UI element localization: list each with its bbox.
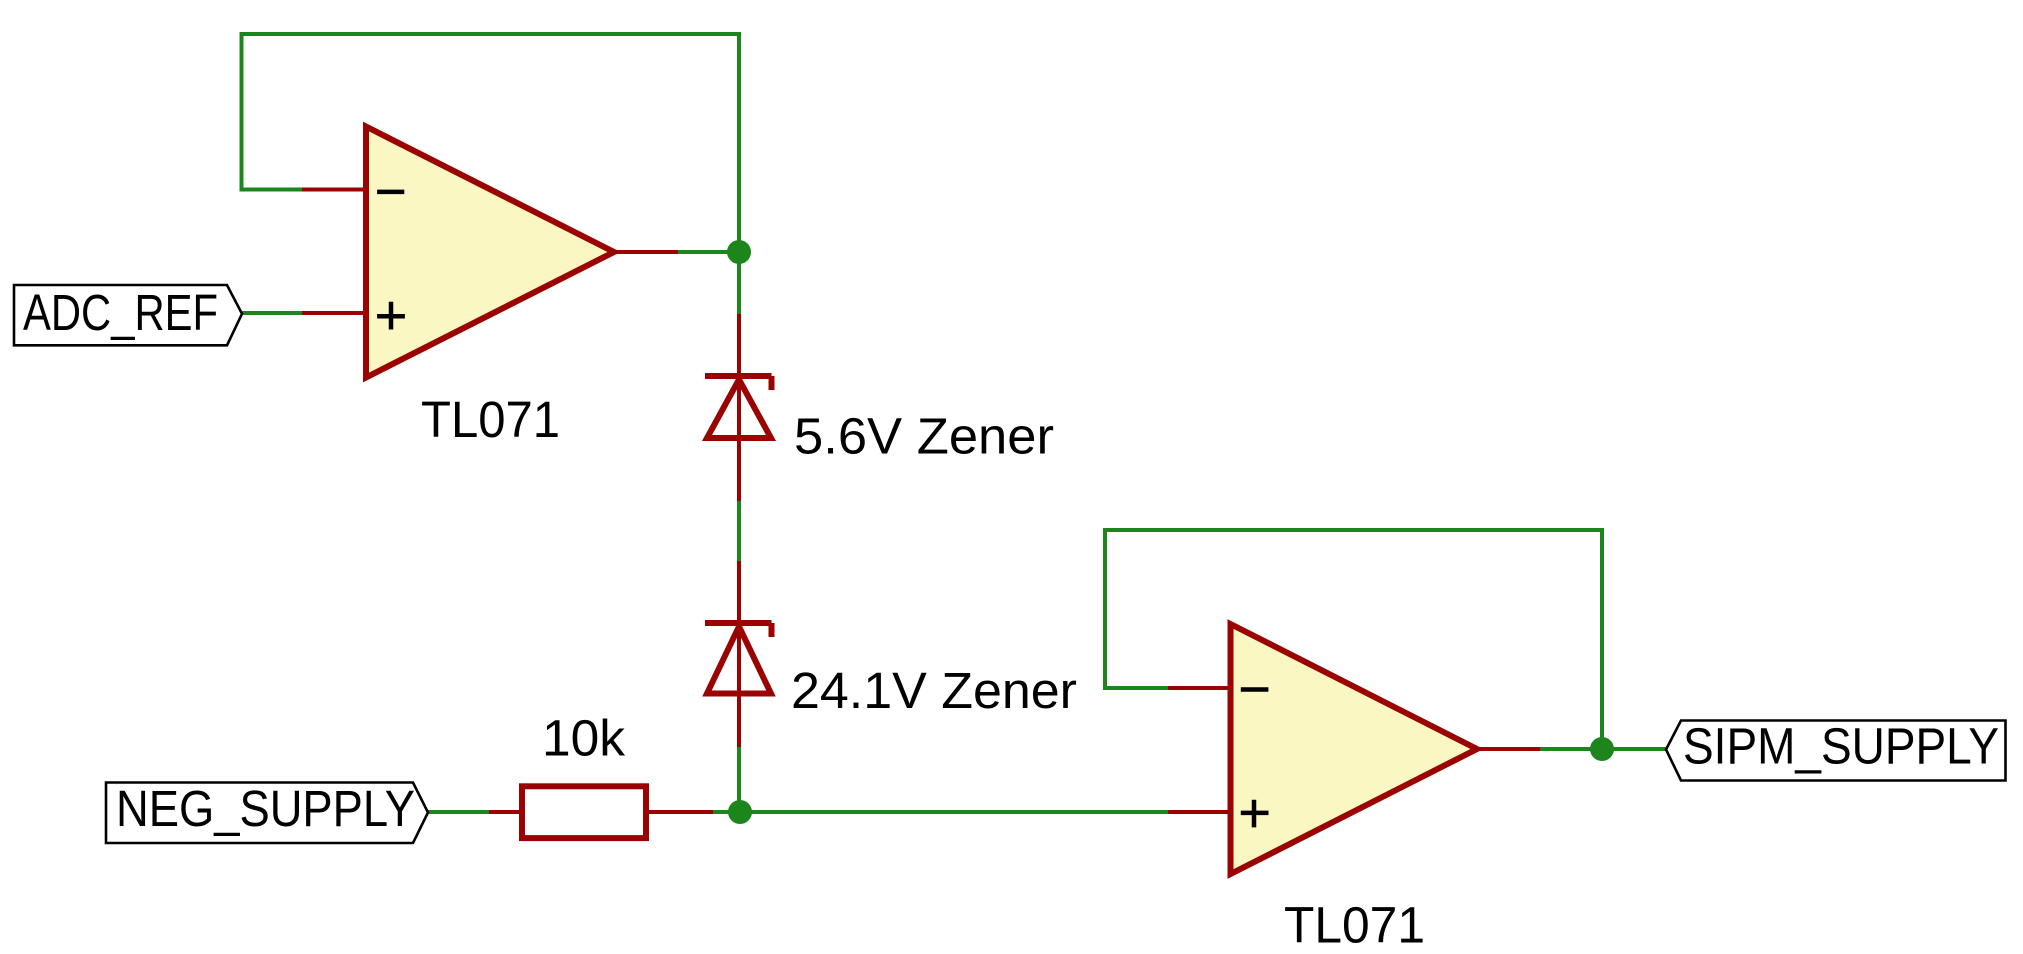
op-amp U2 minus sign [1241, 687, 1269, 692]
svg-text:ADC_REF: ADC_REF [23, 284, 218, 341]
wire NEG_SUPPLY to R1 [428, 810, 489, 814]
zener diode D1 cathode bar [705, 376, 772, 390]
wire ADC_REF to U1 + [242, 311, 302, 315]
svg-text:TL071: TL071 [421, 391, 560, 448]
svg-text:5.6V Zener: 5.6V Zener [794, 408, 1054, 465]
zener diode D2 cathode bar [705, 623, 772, 637]
wire D1 to D2 [737, 501, 741, 561]
pin U1 output [614, 250, 678, 254]
pin R1 left [489, 810, 522, 814]
op-amp U1 TL071 body [366, 127, 614, 378]
zener diode D1 anode triangle [707, 380, 771, 439]
pin U2 non-inverting [1168, 810, 1231, 814]
pin/body line zener D1 [737, 314, 741, 501]
op-amp U1 minus sign [377, 190, 404, 195]
wire U2 output through junction to SIPM_SUPPLY [1540, 747, 1666, 751]
wire feedback U1 (output to inverting input) [242, 34, 740, 252]
svg-text:NEG_SUPPLY: NEG_SUPPLY [116, 780, 415, 837]
op-amp U2 plus sign [1241, 800, 1269, 828]
pin R1 right [646, 810, 713, 814]
pin U1 inverting [302, 188, 366, 192]
junction node A (U1 output) [727, 240, 751, 264]
hierarchical label SIPM_SUPPLY shape [1666, 721, 2006, 781]
svg-text:24.1V Zener: 24.1V Zener [791, 662, 1077, 719]
junction node B (divider node) [728, 800, 752, 824]
wire junction to zener D1 [737, 252, 741, 314]
zener diode D2 anode triangle [707, 627, 771, 694]
resistor R1 body [522, 786, 646, 838]
wire U1 output to junction [678, 250, 739, 254]
hierarchical label NEG_SUPPLY shape [106, 783, 428, 844]
op-amp U2 TL071 body [1231, 624, 1478, 874]
pin U2 output [1477, 747, 1540, 751]
wire feedback U2 [1105, 530, 1602, 749]
hierarchical label ADC_REF shape [14, 285, 242, 345]
wire R1 through node to U2 + [713, 810, 1168, 814]
pin U1 non-inverting [302, 311, 366, 315]
pin U2 inverting [1168, 686, 1231, 690]
svg-text:SIPM_SUPPLY: SIPM_SUPPLY [1683, 718, 1999, 775]
svg-text:10k: 10k [542, 710, 625, 767]
junction node C (U2 output) [1590, 737, 1614, 761]
pin/body line zener D2 [737, 561, 741, 747]
wire D2 to node [737, 747, 741, 812]
op-amp U1 plus sign [377, 302, 405, 330]
svg-text:TL071: TL071 [1284, 897, 1425, 954]
